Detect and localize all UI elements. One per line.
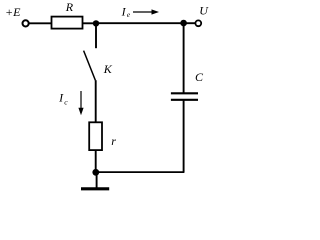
- wire node B to output terminal: [184, 22, 196, 24]
- switch K blade: [84, 51, 96, 81]
- wire node C to capacitor branch (bottom): [96, 171, 185, 173]
- arrow Ic: [78, 91, 83, 115]
- node A (junction dot): [93, 20, 99, 26]
- svg-text:C: C: [195, 70, 204, 84]
- ground: [81, 187, 109, 190]
- resistor r: [89, 122, 102, 150]
- terminal (input): [23, 20, 29, 26]
- node C (junction dot): [92, 169, 99, 176]
- svg-text:c: c: [64, 98, 68, 107]
- wire node A down to switch: [95, 23, 97, 48]
- arrow Ie: [133, 9, 159, 14]
- wire input to R: [29, 22, 52, 24]
- wire node C to ground: [96, 172, 98, 188]
- wire node A to node B: [96, 22, 184, 24]
- wire capacitor to bottom wire: [183, 100, 185, 172]
- svg-text:+E: +E: [5, 5, 21, 19]
- wire r to node C: [95, 150, 97, 172]
- svg-text:R: R: [65, 0, 74, 14]
- svg-text:I: I: [58, 91, 64, 105]
- svg-text:I: I: [121, 5, 127, 19]
- svg-text:U: U: [199, 4, 209, 18]
- resistor R: [52, 17, 83, 29]
- terminal U (output): [195, 20, 201, 26]
- wire node B down to capacitor: [183, 23, 185, 93]
- wire switch to resistor r: [95, 80, 97, 122]
- svg-text:r: r: [111, 134, 116, 148]
- node B (junction dot): [180, 20, 187, 27]
- svg-text:e: e: [127, 10, 131, 19]
- wire R to node A: [83, 22, 97, 24]
- svg-text:K: K: [103, 62, 113, 76]
- capacitor C: [171, 93, 198, 100]
